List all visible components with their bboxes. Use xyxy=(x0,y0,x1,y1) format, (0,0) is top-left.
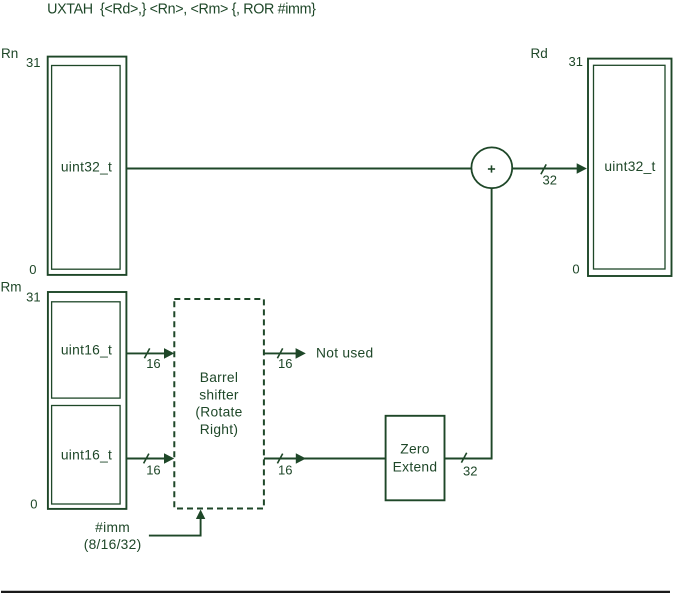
svg-text:Rm: Rm xyxy=(1,280,22,295)
svg-text:16: 16 xyxy=(278,462,292,477)
svg-text:Rn: Rn xyxy=(1,46,18,61)
svg-text:Rd: Rd xyxy=(531,46,548,61)
svg-text:31: 31 xyxy=(26,55,40,70)
svg-text:Zero: Zero xyxy=(400,442,430,457)
svg-text:0: 0 xyxy=(29,262,36,277)
svg-text:uint32_t: uint32_t xyxy=(604,159,655,174)
svg-text:0: 0 xyxy=(572,262,579,277)
svg-text:uint16_t: uint16_t xyxy=(61,343,112,358)
svg-text:Not used: Not used xyxy=(316,346,373,361)
svg-text:0: 0 xyxy=(30,496,37,511)
svg-text:uint16_t: uint16_t xyxy=(61,448,112,463)
svg-text:shifter: shifter xyxy=(199,387,239,402)
svg-text:UXTAH {<Rd>,} <Rn>, <Rm> {, R: UXTAH {<Rd>,} <Rn>, <Rm> {, ROR #imm} xyxy=(47,2,316,18)
svg-text:uint32_t: uint32_t xyxy=(61,159,112,174)
svg-text:31: 31 xyxy=(26,290,40,305)
svg-text:Barrel: Barrel xyxy=(200,370,238,385)
svg-text:(8/16/32): (8/16/32) xyxy=(84,537,142,552)
svg-text:Right): Right) xyxy=(200,422,238,437)
svg-text:16: 16 xyxy=(146,462,160,477)
svg-text:#imm: #imm xyxy=(95,520,130,535)
svg-text:16: 16 xyxy=(146,356,160,371)
svg-text:32: 32 xyxy=(543,173,557,188)
svg-text:Extend: Extend xyxy=(393,460,438,475)
svg-text:32: 32 xyxy=(463,463,477,478)
svg-text:31: 31 xyxy=(569,54,583,69)
svg-text:(Rotate: (Rotate xyxy=(195,405,242,420)
svg-text:16: 16 xyxy=(278,356,292,371)
